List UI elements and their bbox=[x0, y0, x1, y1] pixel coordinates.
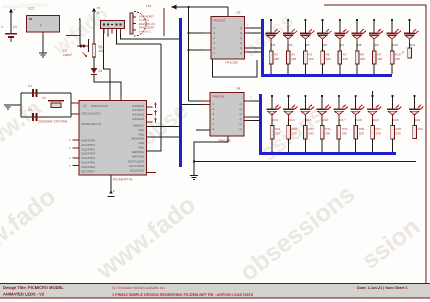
LED D15 bbox=[300, 105, 315, 122]
vertical wire right of MCU bbox=[147, 44, 162, 151]
resistor R38 bbox=[391, 119, 402, 139]
svg-text:ssion: ssion bbox=[356, 212, 425, 274]
svg-text:7: 7 bbox=[250, 96, 252, 99]
U2 bottom right red stub bbox=[147, 172, 157, 174]
svg-text:D9: D9 bbox=[375, 43, 379, 47]
resistor R9 bbox=[372, 43, 382, 64]
U2 to bus wires bbox=[147, 126, 181, 128]
svg-text:www.fado: www.fado bbox=[0, 183, 61, 278]
node bottom bank col 7 bbox=[371, 95, 373, 109]
svg-text:C2: C2 bbox=[28, 108, 32, 112]
power arrow VCC bbox=[92, 6, 100, 44]
connector J1 bbox=[96, 11, 125, 29]
svg-text:D10: D10 bbox=[393, 43, 399, 47]
shift register U3 box bbox=[211, 17, 245, 60]
node bottom bank col 9 bbox=[413, 95, 415, 109]
wire J1 pin4 to right bbox=[116, 34, 161, 45]
svg-text:220: 220 bbox=[360, 57, 365, 61]
resistor R1 bbox=[92, 44, 104, 57]
svg-text:220: 220 bbox=[292, 131, 297, 135]
svg-text:74HC595: 74HC595 bbox=[212, 95, 225, 99]
svg-text:Q: Q bbox=[240, 37, 242, 40]
buzzer LS1 bbox=[130, 4, 164, 36]
svg-text:C1: C1 bbox=[28, 84, 32, 88]
LED D8 bbox=[352, 29, 367, 47]
svg-text:RC1/T1OSI: RC1/T1OSI bbox=[130, 164, 145, 168]
LED D4 bbox=[283, 29, 298, 47]
wire col 7 to bus bbox=[373, 64, 375, 74]
svg-text:S: S bbox=[213, 123, 215, 126]
svg-text:S: S bbox=[214, 32, 216, 35]
node top bank col 8 bbox=[391, 19, 393, 34]
svg-text:RD1/PSP1: RD1/PSP1 bbox=[82, 143, 96, 147]
svg-text:R: R bbox=[402, 51, 405, 55]
wire col 6 to bus bbox=[356, 64, 358, 74]
svg-text:7: 7 bbox=[247, 24, 249, 27]
U2 top pin stubs bbox=[109, 96, 111, 101]
U3 bottom wire path bbox=[213, 59, 258, 77]
svg-text:obsessions: obsessions bbox=[234, 180, 360, 287]
svg-text:Q: Q bbox=[239, 103, 241, 106]
svg-text:S: S bbox=[214, 47, 216, 50]
resistor R35 bbox=[337, 119, 348, 139]
crystal loop wires bbox=[21, 92, 71, 94]
svg-text:D14: D14 bbox=[289, 118, 295, 122]
svg-text:Design Title: PICMICRO MODEL: Design Title: PICMICRO MODEL bbox=[3, 285, 64, 290]
svg-text:Q: Q bbox=[239, 118, 241, 121]
svg-text:220: 220 bbox=[325, 131, 330, 135]
svg-text:S: S bbox=[213, 113, 215, 116]
svg-text:RB7/PGD: RB7/PGD bbox=[132, 154, 144, 158]
svg-text:Date: 1-Jan-21 | Num Sheet 1: Date: 1-Jan-21 | Num Sheet 1 bbox=[357, 286, 408, 290]
svg-text:D8: D8 bbox=[358, 43, 362, 47]
svg-text:220: 220 bbox=[308, 57, 313, 61]
svg-text:Q: Q bbox=[240, 47, 242, 50]
svg-text:S: S bbox=[214, 52, 216, 55]
LED D13 bbox=[267, 105, 282, 122]
wire bottom col 8 to bus bbox=[392, 139, 394, 152]
resistor R37 bbox=[371, 119, 382, 139]
LED D3 bbox=[266, 29, 281, 47]
resistor R36 bbox=[354, 119, 365, 139]
svg-text:100nF: 100nF bbox=[63, 53, 72, 57]
resistor R34 bbox=[320, 119, 331, 139]
node bottom bank col 1 bbox=[271, 95, 273, 109]
svg-text:Q: Q bbox=[239, 128, 241, 131]
svg-text:RC0/T1OSO: RC0/T1OSO bbox=[128, 160, 145, 164]
osc pins into U2 bbox=[71, 102, 79, 104]
svg-text:(2): (2) bbox=[13, 25, 17, 29]
resistor R7 bbox=[338, 43, 348, 64]
LED D16 bbox=[317, 105, 332, 122]
svg-text:R42: R42 bbox=[418, 127, 424, 131]
node bottom bank col 2 bbox=[287, 95, 289, 109]
svg-text:1 PIN512 SIMPLE DESIGN RENDERI: 1 PIN512 SIMPLE DESIGN RENDERING PICDEM.… bbox=[112, 293, 254, 297]
wire col 1 to bus bbox=[270, 64, 272, 74]
svg-text:S: S bbox=[213, 128, 215, 131]
svg-text:RD4/PSP4: RD4/PSP4 bbox=[82, 156, 96, 160]
svg-text:RA3/AN3: RA3/AN3 bbox=[132, 117, 144, 121]
LED D7 bbox=[334, 29, 349, 47]
svg-text:RD3/PSP3: RD3/PSP3 bbox=[82, 152, 96, 156]
node bottom bank col 3 bbox=[304, 95, 306, 109]
svg-text:D11: D11 bbox=[410, 43, 416, 47]
svg-text:U3: U3 bbox=[236, 11, 240, 15]
shift register U4 box bbox=[210, 93, 244, 137]
svg-text:220: 220 bbox=[326, 57, 331, 61]
LED D18 bbox=[350, 105, 365, 122]
LED D6 bbox=[317, 29, 332, 47]
svg-text:D13: D13 bbox=[273, 118, 279, 122]
svg-text:v=3.6V 1: v=3.6V 1 bbox=[139, 29, 151, 33]
node top bank col 2 bbox=[287, 19, 289, 34]
wire J1 pin1 to MCU bbox=[104, 34, 110, 97]
svg-text:220: 220 bbox=[395, 57, 400, 61]
wire D1 to MCU pin bbox=[94, 74, 121, 96]
wire bottom col 2 to bus bbox=[288, 139, 290, 152]
top wire arrow bbox=[171, 5, 228, 10]
resistor R3 bbox=[269, 43, 279, 64]
wire bottom col 5 to bus bbox=[338, 139, 340, 152]
svg-text:No Simulator Model Available e: No Simulator Model Available etc. bbox=[112, 286, 166, 290]
LED D14 bbox=[283, 105, 298, 122]
wire J1 pin5 to bus bbox=[121, 34, 181, 40]
LED D19 bbox=[367, 105, 382, 122]
node top bank col 1 bbox=[270, 19, 272, 34]
svg-text:D6: D6 bbox=[323, 43, 327, 47]
ground mid bbox=[190, 162, 198, 180]
resistor R42 bbox=[413, 119, 424, 139]
wire bottom col 1 to bus bbox=[271, 139, 273, 152]
wire bottom col 4 to bus bbox=[321, 139, 323, 152]
svg-text:1: 1 bbox=[113, 189, 115, 193]
svg-text:220: 220 bbox=[396, 131, 401, 135]
svg-text:D17: D17 bbox=[339, 118, 345, 122]
svg-text:220: 220 bbox=[377, 57, 382, 61]
capacitor C2 bbox=[28, 108, 37, 121]
svg-text:RB3/PGM: RB3/PGM bbox=[131, 137, 144, 141]
module box U1 bbox=[27, 7, 60, 33]
svg-text:RD2/PSP2: RD2/PSP2 bbox=[82, 147, 96, 151]
U2 internal pin text left bbox=[82, 112, 102, 174]
svg-text:D20: D20 bbox=[393, 118, 399, 122]
svg-text:RA2/AN2: RA2/AN2 bbox=[132, 113, 144, 117]
svg-text:RD6/PSP6: RD6/PSP6 bbox=[82, 165, 96, 169]
ground under module bbox=[39, 32, 47, 57]
svg-text:RB5: RB5 bbox=[139, 146, 145, 150]
svg-text:RD0/PSP0: RD0/PSP0 bbox=[82, 139, 96, 143]
battery B1 bbox=[1, 8, 17, 42]
svg-text:220: 220 bbox=[274, 57, 279, 61]
svg-text:PIC16F877A: PIC16F877A bbox=[113, 178, 133, 182]
wire into U3 top bbox=[227, 7, 229, 17]
svg-text:74HC595: 74HC595 bbox=[225, 61, 238, 65]
U4 right pin wires to bus bbox=[244, 96, 260, 121]
U4 bottom wire to ground bbox=[194, 136, 228, 162]
svg-text:U2: U2 bbox=[83, 104, 87, 108]
node top bank col 3 bbox=[304, 19, 306, 34]
U2 left pin stubs bbox=[69, 139, 79, 168]
crystal X1 bbox=[38, 96, 68, 124]
J1 pin stubs bbox=[104, 29, 121, 34]
svg-text:x: x bbox=[69, 165, 71, 168]
svg-text:220: 220 bbox=[359, 131, 364, 135]
svg-text:J1: J1 bbox=[96, 11, 100, 15]
resistor R6 bbox=[321, 43, 331, 64]
svg-text:D18: D18 bbox=[356, 118, 362, 122]
LED D9 bbox=[369, 29, 384, 47]
node top bank col 5 bbox=[339, 19, 341, 34]
capacitor C5 bbox=[63, 18, 88, 57]
resistor R4 bbox=[286, 43, 296, 64]
resistor R32 bbox=[287, 119, 298, 139]
svg-text:Q: Q bbox=[240, 27, 242, 30]
svg-text:D16: D16 bbox=[323, 118, 329, 122]
wire R1 to D1 bbox=[93, 57, 95, 68]
node top bank col 6 bbox=[356, 19, 358, 34]
svg-text:RB6/PGC: RB6/PGC bbox=[132, 150, 144, 154]
svg-text:Q: Q bbox=[240, 52, 242, 55]
svg-text:D5: D5 bbox=[306, 43, 310, 47]
svg-text:S: S bbox=[214, 37, 216, 40]
svg-text:x: x bbox=[69, 147, 71, 150]
svg-text:+?: +? bbox=[99, 46, 103, 50]
svg-text:RC2/CCP1: RC2/CCP1 bbox=[130, 168, 144, 172]
svg-text:RB1: RB1 bbox=[139, 128, 145, 132]
svg-text:RD7/PSP7: RD7/PSP7 bbox=[82, 169, 96, 173]
title block bbox=[0, 284, 430, 299]
svg-text:Q: Q bbox=[239, 108, 241, 111]
svg-text:www.fado: www.fado bbox=[91, 191, 201, 286]
svg-text:RB0/INT: RB0/INT bbox=[133, 124, 144, 128]
wire bottom col 3 to bus bbox=[304, 139, 306, 152]
svg-text:Q: Q bbox=[239, 123, 241, 126]
LED D20 bbox=[387, 105, 402, 122]
tall wire bottom col 7 bbox=[372, 91, 374, 96]
svg-text:D15: D15 bbox=[306, 118, 312, 122]
wire col 5 to bus bbox=[339, 64, 341, 74]
node top bank col 7 bbox=[373, 19, 375, 34]
svg-text:S: S bbox=[214, 42, 216, 45]
sheet border top-right bbox=[324, 5, 426, 283]
bus U4 vertical + bottom bank bus bbox=[261, 94, 397, 154]
U2 bottom pin wire with net 1 bbox=[108, 175, 116, 197]
svg-text:D19: D19 bbox=[373, 118, 379, 122]
svg-text:LS1: LS1 bbox=[146, 4, 152, 8]
svg-text:RA1/AN1: RA1/AN1 bbox=[132, 108, 144, 112]
U2 right pin stubs with power marks bbox=[147, 102, 158, 123]
wire col 4 to bus bbox=[322, 64, 324, 74]
node bottom bank col 4 bbox=[321, 95, 323, 109]
node bottom bank col 8 bbox=[391, 95, 393, 109]
red pin stub bbox=[66, 34, 80, 36]
svg-text:Q: Q bbox=[240, 42, 242, 45]
ground crystal bbox=[4, 105, 21, 109]
capacitor C1 bbox=[28, 84, 37, 97]
svg-text:x: x bbox=[69, 157, 71, 160]
svg-text:www.fadstobs: www.fadstobs bbox=[1, 1, 50, 12]
vertical junction wire bbox=[188, 7, 190, 101]
wire col 8 to bus bbox=[391, 64, 393, 74]
node top bank col 4 bbox=[322, 19, 324, 34]
svg-text:X1: X1 bbox=[42, 96, 46, 100]
svg-text:220: 220 bbox=[376, 131, 381, 135]
resistor R11 bbox=[402, 43, 411, 58]
svg-text:Q: Q bbox=[240, 32, 242, 35]
svg-text:S: S bbox=[213, 108, 215, 111]
svg-text:220: 220 bbox=[275, 131, 280, 135]
resistor R5 bbox=[304, 43, 314, 64]
svg-text:S: S bbox=[213, 103, 215, 106]
svg-text:220: 220 bbox=[308, 131, 313, 135]
resistor R33 bbox=[304, 119, 315, 139]
svg-text:D21: D21 bbox=[415, 118, 421, 122]
wire col 2 to bus bbox=[287, 64, 289, 74]
LED D11 bbox=[404, 29, 419, 47]
MCU U2 box bbox=[79, 101, 147, 176]
wire col 3 to bus bbox=[304, 64, 306, 74]
svg-text:D7: D7 bbox=[340, 43, 344, 47]
node top bank col 9 bbox=[408, 19, 410, 34]
diode D1 bbox=[91, 68, 103, 74]
svg-text:220: 220 bbox=[291, 57, 296, 61]
svg-text:20.00MHZ CRYSTAL: 20.00MHZ CRYSTAL bbox=[38, 120, 68, 124]
svg-text:RA0/AN0: RA0/AN0 bbox=[132, 104, 144, 108]
svg-text:+5: +5 bbox=[97, 6, 101, 10]
resistor R10 bbox=[390, 43, 401, 64]
bus left vertical bbox=[179, 18, 182, 167]
svg-text:x: x bbox=[69, 139, 71, 142]
node bottom bank col 5 bbox=[338, 95, 340, 109]
svg-text:3: 3 bbox=[1, 25, 3, 29]
svg-text:220: 220 bbox=[343, 57, 348, 61]
wire bottom col 6 to bus bbox=[355, 139, 357, 152]
U4 left pin wires bbox=[181, 101, 211, 130]
long return wire bbox=[194, 161, 416, 163]
svg-text:OSC1/CLKIN: OSC1/CLKIN bbox=[91, 104, 108, 108]
svg-text:ANIMATED LEDS - V2: ANIMATED LEDS - V2 bbox=[3, 292, 45, 297]
LED D5 bbox=[300, 29, 315, 47]
svg-text:D1: D1 bbox=[99, 69, 103, 73]
wire J1 pin2 stub bbox=[107, 34, 109, 37]
node bottom bank col 6 bbox=[355, 95, 357, 109]
svg-text:RB4: RB4 bbox=[139, 141, 145, 145]
svg-text:S: S bbox=[214, 27, 216, 30]
svg-text:74HC595: 74HC595 bbox=[213, 19, 226, 23]
resistor R8 bbox=[355, 43, 365, 64]
svg-text:RD5/PSP5: RD5/PSP5 bbox=[82, 161, 96, 165]
svg-text:VCC: VCC bbox=[28, 7, 35, 11]
svg-text:220: 220 bbox=[342, 131, 347, 135]
svg-text:OSC2/CLKOUT: OSC2/CLKOUT bbox=[82, 112, 102, 116]
U3 left pin wires bbox=[189, 33, 212, 50]
resistor R31 bbox=[270, 119, 281, 139]
svg-text:U4: U4 bbox=[236, 87, 240, 91]
svg-text:RB2: RB2 bbox=[139, 132, 145, 136]
svg-text:D4: D4 bbox=[289, 43, 293, 47]
U2 internal pin text right bbox=[128, 104, 145, 173]
U3 right pin wires to bus bbox=[245, 24, 268, 52]
svg-text:S: S bbox=[213, 118, 215, 121]
LED D10 bbox=[387, 29, 402, 47]
svg-text:D3: D3 bbox=[272, 43, 276, 47]
LED D17 bbox=[334, 105, 349, 122]
svg-text:Q: Q bbox=[239, 113, 241, 116]
LED D21 bbox=[409, 105, 424, 122]
svg-text:MCLR/Vpp/THV: MCLR/Vpp/THV bbox=[82, 122, 102, 126]
wire bottom col 7 to bus bbox=[372, 139, 374, 152]
bus right vertical + top bank bus bbox=[263, 19, 393, 76]
